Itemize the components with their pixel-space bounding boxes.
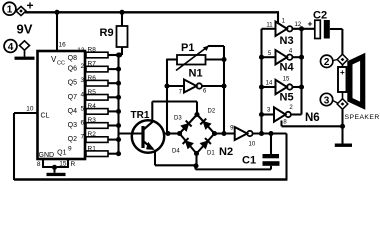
svg-text:N6: N6: [305, 112, 320, 124]
junction (rail / bridge left): [165, 131, 170, 136]
wire C1 return: [155, 165, 271, 169]
resistor R1: [86, 145, 119, 156]
svg-text:8: 8: [37, 161, 41, 168]
junction (bus row R8): [116, 52, 121, 57]
label C2: [313, 10, 327, 22]
label N5: [280, 92, 294, 104]
capacitor C2: [315, 20, 343, 55]
wire N1 input: [167, 85, 184, 87]
label 9V: [17, 22, 33, 37]
junction (out rail/N4): [299, 55, 304, 60]
label D3: [174, 116, 182, 122]
N2 pin 10 label: [249, 142, 256, 148]
wire N5 out: [292, 86, 301, 88]
node bridge right: [212, 131, 217, 136]
svg-text:1: 1: [282, 19, 286, 25]
label N3: [280, 35, 294, 47]
N3 pin 1 label (VDD): [282, 19, 286, 25]
junction (right rail bottom): [221, 131, 226, 136]
inverter N5: [276, 80, 293, 94]
svg-text:15: 15: [283, 77, 290, 83]
wire N1 output: [202, 85, 224, 87]
svg-text:Q7: Q7: [68, 94, 77, 101]
label C1: [242, 155, 256, 167]
svg-text:R9: R9: [100, 27, 114, 39]
wire N5 in: [262, 86, 276, 88]
label D1: [207, 151, 215, 157]
wire left rail (N1 in): [166, 59, 168, 134]
junction (P1 right corner): [221, 57, 226, 62]
wire TR1 base: [119, 132, 144, 134]
svg-text:9: 9: [68, 146, 72, 153]
svg-text:+: +: [308, 19, 313, 29]
wire P1 right: [206, 58, 225, 60]
label N4: [280, 61, 295, 73]
capacitor C1: [263, 134, 280, 170]
IC1 pin 10 (CL): [14, 106, 50, 120]
wire gates output rail: [300, 29, 302, 115]
svg-text:R7: R7: [88, 61, 97, 68]
N5 pin 15 label: [283, 77, 290, 83]
svg-text:14: 14: [266, 81, 273, 87]
svg-text:Q1: Q1: [57, 150, 66, 157]
wire +9V rail: [25, 12, 279, 23]
N1 pin 7 label: [179, 90, 183, 96]
ground (under IC1): [47, 173, 66, 176]
junction (bridge bottom / return): [193, 163, 198, 168]
wire bridge bottom stem: [195, 154, 197, 166]
IC1 pin 4 (Q7): [68, 91, 85, 101]
svg-text:N3: N3: [280, 35, 294, 47]
N3 pin 11 label: [266, 23, 273, 29]
svg-text:7: 7: [179, 90, 183, 96]
diode D3: [181, 121, 191, 131]
diode D1: [201, 138, 211, 148]
resistor R5: [86, 89, 119, 100]
N5 pin 14 label: [266, 81, 273, 87]
svg-text:CC: CC: [57, 61, 65, 67]
label D2: [208, 109, 216, 115]
svg-text:D1: D1: [207, 151, 215, 157]
svg-text:4: 4: [80, 91, 84, 98]
svg-text:11: 11: [266, 23, 273, 29]
svg-text:R: R: [71, 161, 76, 168]
svg-text:2: 2: [80, 63, 84, 70]
ground (speaker): [335, 144, 352, 147]
svg-text:R5: R5: [88, 89, 97, 96]
svg-text:Q5: Q5: [68, 80, 77, 87]
wire speaker to ground: [341, 109, 343, 143]
resistor R9: [117, 12, 128, 55]
svg-text:R6: R6: [88, 75, 97, 82]
IC1 pin 5 (Q4): [68, 105, 85, 115]
svg-text:C2: C2: [313, 10, 327, 22]
wire P1 slider loop: [208, 45, 224, 47]
N4 pin 4 label: [289, 48, 293, 54]
wire clock feedback: [14, 113, 287, 180]
IC1 pin 9 (Q1): [57, 146, 72, 157]
svg-text:CL: CL: [41, 113, 50, 120]
svg-text:SPEAKER: SPEAKER: [345, 114, 380, 121]
wire N3 in: [262, 28, 276, 30]
N6 pin 2 label: [289, 105, 293, 111]
svg-text:Q8: Q8: [68, 55, 77, 62]
IC1 pin 2 (Q6): [68, 63, 85, 73]
wire P1 left: [167, 58, 177, 60]
svg-text:7: 7: [80, 134, 84, 141]
svg-text:3: 3: [267, 108, 271, 114]
svg-text:2: 2: [289, 105, 293, 111]
junction (bus row R7): [116, 67, 121, 72]
junction (left rail / N1 in): [164, 83, 169, 88]
label R9: [100, 27, 114, 39]
wire gates input rail: [260, 29, 262, 134]
junction (rail/N4 in): [259, 55, 264, 60]
svg-text:4: 4: [289, 48, 293, 54]
wire N6 in: [262, 113, 275, 115]
potentiometer P1: [176, 46, 209, 71]
svg-text:+: +: [27, 0, 34, 13]
N6 pin 3 label: [267, 108, 271, 114]
svg-text:9V: 9V: [17, 22, 33, 37]
IC IC1 body: [38, 51, 86, 159]
svg-text:2: 2: [324, 57, 330, 68]
resistor R4: [86, 103, 119, 114]
inverter N2: [235, 127, 253, 140]
label TR1: [131, 110, 150, 121]
wire right rail (N1 out): [223, 46, 225, 134]
svg-text:3: 3: [324, 95, 330, 106]
node bridge bottom: [194, 151, 199, 156]
svg-text:10: 10: [249, 142, 256, 148]
inverter N3: [276, 22, 293, 36]
svg-text:R8: R8: [88, 47, 97, 54]
node bridge left: [177, 131, 182, 136]
resistor R7: [86, 61, 119, 72]
svg-text:Q6: Q6: [68, 66, 77, 73]
svg-text:R1: R1: [88, 145, 97, 152]
svg-text:Q3: Q3: [68, 122, 77, 129]
wire N4 out: [292, 56, 301, 58]
resistor R8: [86, 47, 119, 58]
label N6: [305, 112, 320, 124]
svg-text:5: 5: [268, 51, 272, 57]
svg-text:C1: C1: [242, 155, 256, 167]
C2 polarity +: [308, 19, 313, 29]
terminal 4 (touch contact): [4, 40, 34, 60]
label N1: [189, 68, 203, 80]
junction (rail/N6 in): [259, 112, 264, 117]
IC1 pin 13 (Q8): [68, 47, 85, 62]
IC1 GND label: [39, 152, 55, 159]
wire TR1 collector: [152, 102, 197, 123]
junction (bus row R5): [116, 95, 121, 100]
junction (bus row R3): [116, 123, 121, 128]
node bridge top: [194, 112, 199, 117]
junction (bus row R2): [116, 137, 121, 142]
label SPEAKER: [345, 114, 380, 121]
svg-text:D3: D3: [174, 116, 182, 122]
inverter N1: [184, 80, 202, 93]
junction (bus row R4): [116, 109, 121, 114]
wire bridge arms: [180, 115, 215, 154]
label D4: [172, 149, 180, 155]
junction (out rail/N5): [299, 84, 304, 89]
junction (rail / IC pin16): [54, 10, 59, 15]
wire TR1 emitter: [154, 151, 156, 166]
junction (R9 / ladder top): [117, 52, 122, 57]
svg-text:Q2: Q2: [68, 136, 77, 143]
wire pins 8-15 to ground: [42, 167, 69, 173]
svg-text:P1: P1: [181, 42, 194, 54]
speaker: [338, 57, 363, 106]
svg-text:GND: GND: [39, 152, 55, 159]
N6 pin 8 label (VSS): [283, 119, 287, 125]
label N2: [219, 146, 233, 158]
junction (bus row R6): [116, 81, 121, 86]
N4 pin 5 label: [268, 51, 272, 57]
junction (rail / R9): [119, 10, 124, 15]
IC1 Vcc label: [51, 55, 65, 67]
svg-text:4: 4: [8, 42, 14, 53]
IC1 pin 7 (Q2): [68, 134, 85, 144]
svg-text:Q4: Q4: [68, 108, 77, 115]
wire N6 out: [291, 113, 302, 115]
wire ladder bus: [117, 55, 119, 154]
N1 pin 6 label: [203, 89, 207, 95]
diode D2: [200, 119, 210, 129]
label P1: [181, 42, 194, 54]
IC1 pin 6 (Q3): [68, 120, 85, 130]
svg-text:1: 1: [7, 5, 13, 16]
svg-text:TR1: TR1: [131, 110, 150, 121]
junction (pin8/pin15 ground): [52, 165, 57, 170]
svg-text:D4: D4: [172, 149, 180, 155]
junction (rail/N5 in): [259, 84, 264, 89]
svg-text:10: 10: [26, 106, 34, 113]
diode D4: [183, 138, 193, 148]
wire N3 out: [292, 28, 314, 30]
N3 pin 12 label: [295, 22, 302, 28]
IC1 pin 16: [57, 12, 66, 51]
terminal 3: [320, 93, 348, 109]
svg-text:3: 3: [80, 77, 84, 84]
wire bridge right to N2: [215, 132, 235, 134]
svg-text:D2: D2: [208, 109, 216, 115]
junction (N3 out / output rail): [299, 26, 304, 31]
svg-text:N5: N5: [280, 92, 294, 104]
resistor R6: [86, 75, 119, 86]
IC1 pin 8: [37, 159, 43, 168]
wire left rail to bridge: [165, 132, 180, 134]
IC1 pin 15 (R): [59, 159, 75, 168]
svg-text:16: 16: [59, 42, 67, 49]
wire N6 pin 8 to ground: [282, 121, 343, 127]
resistor R3: [86, 117, 119, 128]
junction (right rail / N1 out): [221, 83, 226, 88]
svg-text:R4: R4: [88, 103, 97, 110]
transistor TR1: [132, 120, 164, 152]
wire N2 output: [253, 132, 287, 134]
junction (N2 out / C1): [268, 131, 273, 136]
svg-text:8: 8: [283, 119, 287, 125]
junction (N2 out / gates rail): [259, 131, 264, 136]
wire N4 in: [262, 56, 276, 58]
junction (pin8 line / speaker gnd): [340, 124, 345, 129]
svg-text:N1: N1: [189, 68, 203, 80]
svg-text:N4: N4: [280, 61, 295, 73]
junction (bus row R1): [116, 151, 121, 156]
svg-text:+: +: [340, 68, 345, 77]
svg-text:9: 9: [230, 126, 234, 132]
inverter N4: [276, 50, 293, 64]
svg-text:5: 5: [80, 105, 84, 112]
IC1 pin 3 (Q5): [68, 77, 85, 87]
svg-text:13: 13: [77, 47, 85, 54]
resistor R2: [86, 131, 119, 142]
inverter N6: [274, 107, 291, 121]
svg-text:R3: R3: [88, 117, 97, 124]
svg-text:6: 6: [80, 120, 84, 127]
terminal 1 (battery +): [3, 0, 33, 16]
wire R8 row to R9: [108, 54, 122, 56]
svg-text:R2: R2: [88, 131, 97, 138]
svg-text:6: 6: [203, 89, 207, 95]
N2 pin 9 label: [230, 126, 234, 132]
terminal 2: [321, 54, 348, 68]
svg-text:N2: N2: [219, 146, 233, 158]
